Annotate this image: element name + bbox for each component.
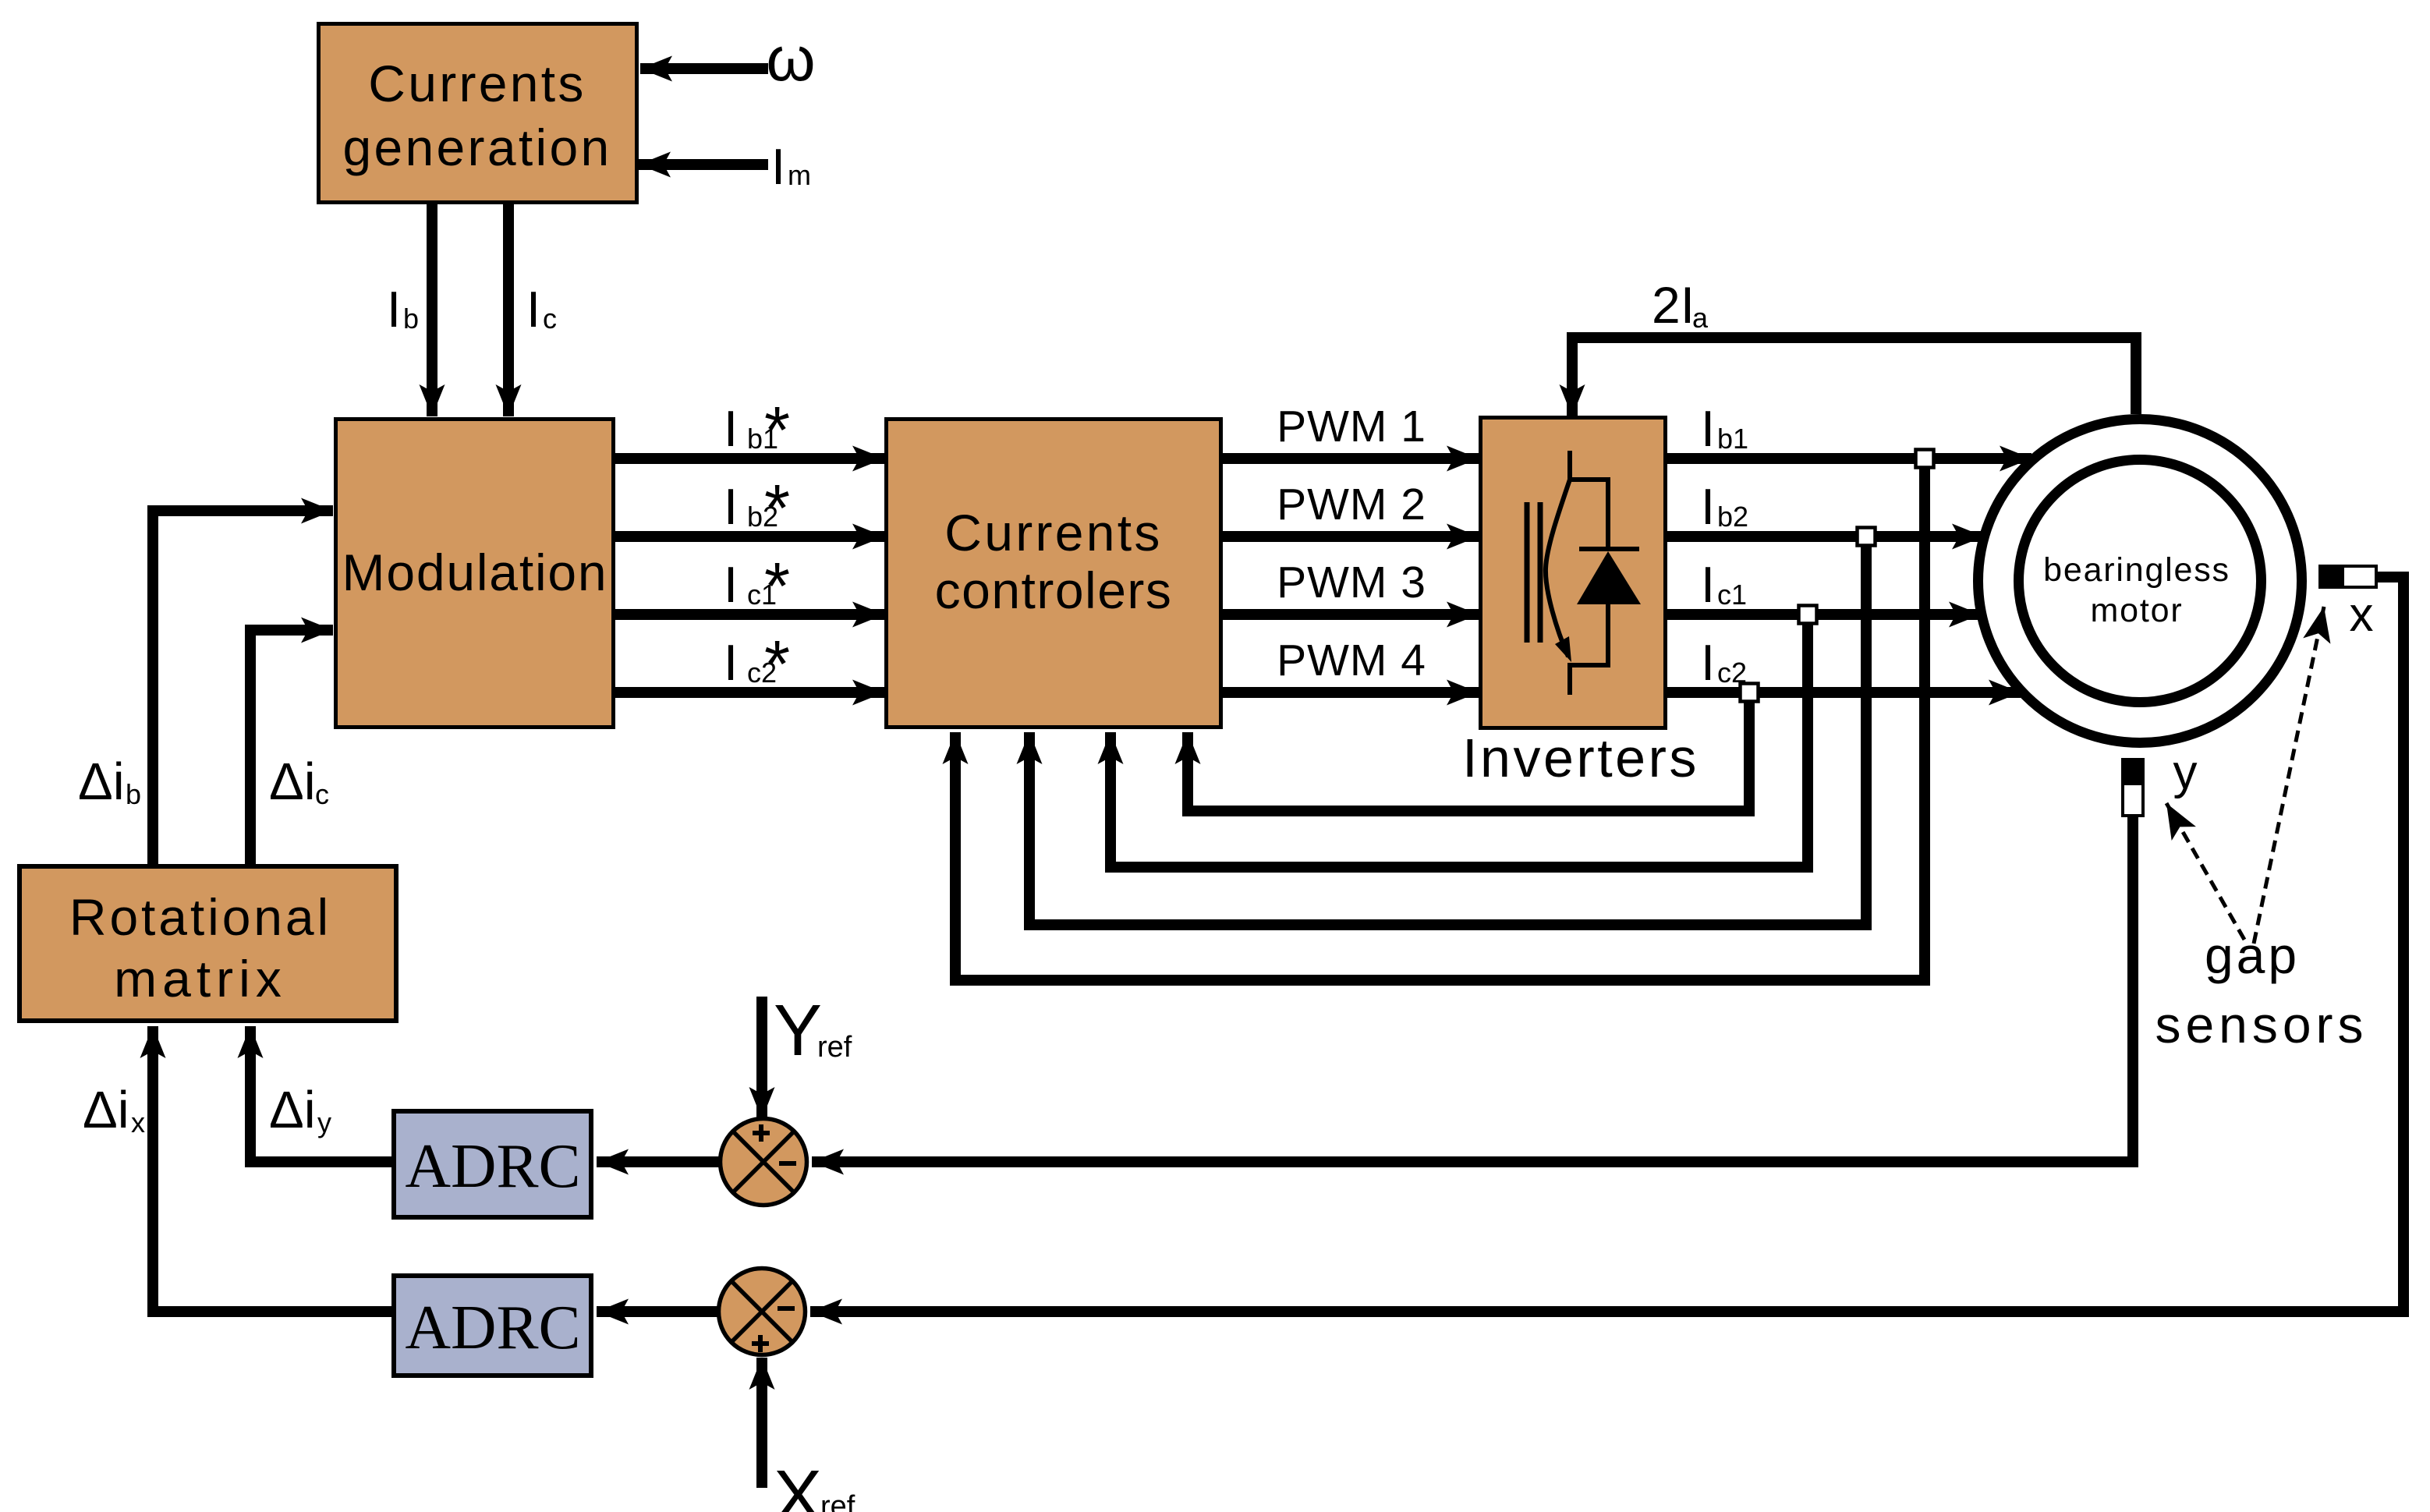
wire current feedback 2 (sensor Ib2 to controlers) (1029, 546, 1866, 925)
wire rotational matrix to modulation (delta ic) (250, 630, 333, 864)
svg-text:PWM 1: PWM 1 (1277, 402, 1426, 451)
svg-text:Δi: Δi (269, 1081, 316, 1139)
gap sensor y (black part) (2121, 758, 2145, 782)
wire Im input (639, 159, 768, 170)
wire rail2 Ib2* modulation to controlers (615, 531, 884, 542)
svg-text:2I: 2I (1652, 276, 1695, 334)
wire PWM1 controlers to inverters (1223, 453, 1479, 464)
svg-text:Modulation: Modulation (342, 544, 608, 601)
svg-text:c: c (543, 303, 557, 335)
wire PWM4 controlers to inverters (1223, 687, 1479, 698)
svg-text:PWM 4: PWM 4 (1277, 636, 1426, 685)
svg-text:Δi: Δi (83, 1081, 129, 1139)
svg-text:*: * (764, 550, 790, 624)
wire omega input (640, 63, 768, 74)
wire Xref input (756, 1358, 767, 1488)
svg-text:*: * (764, 472, 790, 546)
svg-text:x: x (131, 1107, 145, 1138)
svg-text:gap: gap (2205, 926, 2300, 984)
block ADRC 2 (394, 1276, 591, 1376)
block Inverters (1481, 418, 1666, 728)
svg-text:I: I (1701, 478, 1715, 535)
svg-text:I: I (724, 400, 738, 457)
svg-text:a: a (1692, 302, 1709, 334)
wire x sensor feedback to summing junction 2 (810, 577, 2403, 1312)
wire Ic1 inverters to motor (1667, 609, 1981, 620)
wire rotational matrix to modulation (delta ib) (153, 511, 333, 864)
svg-text:ref: ref (817, 1031, 852, 1064)
svg-text:ref: ref (820, 1490, 855, 1512)
current sensor square 4 (1741, 684, 1759, 702)
svg-text:bearingless: bearingless (2043, 551, 2230, 589)
svg-text:b: b (403, 303, 419, 335)
block Currents controlers (887, 420, 1221, 728)
svg-text:Δi: Δi (78, 752, 125, 811)
svg-text:Δi: Δi (269, 752, 316, 811)
svg-text:ω: ω (766, 24, 815, 94)
wire PWM2 controlers to inverters (1223, 531, 1479, 542)
wire rail1 Ib1* modulation to controlers (615, 453, 884, 464)
svg-text:Y: Y (774, 990, 822, 1071)
wire Ic2 inverters to motor (1667, 687, 2021, 698)
block ADRC 1 (394, 1111, 591, 1217)
svg-text:I: I (724, 556, 738, 613)
gap sensor y (white probe) (2123, 784, 2143, 816)
block Rotational matrix (19, 866, 396, 1021)
igbt emitter arrowhead (1555, 636, 1571, 662)
igbt diode triangle (1577, 551, 1641, 604)
svg-text:*: * (764, 394, 790, 468)
dashed arrow to y sensor (2166, 803, 2244, 940)
summing junction 1 (721, 1119, 807, 1206)
wire current feedback 1 (sensor Ib1 to controlers) (955, 468, 1925, 980)
svg-text:I: I (387, 281, 401, 338)
wire Yref input (756, 997, 767, 1119)
svg-text:c1: c1 (1717, 579, 1747, 611)
svg-text:Inverters: Inverters (1462, 728, 1699, 788)
block Modulation (336, 420, 614, 728)
wire rail3 Ic1* modulation to controlers (615, 609, 884, 620)
svg-text:matrix: matrix (114, 950, 287, 1007)
wire rail4 Ic2* modulation to controlers (615, 687, 884, 698)
svg-text:c: c (315, 778, 329, 810)
svg-text:PWM 2: PWM 2 (1277, 480, 1426, 529)
svg-text:*: * (764, 628, 790, 702)
wire ADRC 2 to rotational matrix (delta ix) (153, 1026, 391, 1312)
svg-text:ADRC: ADRC (405, 1131, 580, 1201)
svg-text:Currents: Currents (368, 55, 586, 112)
wire 2Ia feedback motor to inverters (1572, 338, 2136, 416)
wire current feedback 3 (sensor Ic1 to controlers) (1111, 624, 1808, 867)
dashed arrow to x sensor (2254, 607, 2324, 944)
motor bearingless (outer circle) (1978, 420, 2302, 743)
block Currents generation (319, 24, 637, 203)
summing junction 2 (719, 1269, 806, 1355)
wire y sensor feedback to summing junction 1 (812, 817, 2133, 1162)
svg-text:I: I (1701, 634, 1715, 691)
wire Ib1 inverters to motor (1667, 453, 2031, 464)
svg-text:ADRC: ADRC (405, 1292, 580, 1362)
svg-text:b1: b1 (1717, 423, 1748, 455)
svg-text:I: I (724, 478, 738, 535)
svg-text:b: b (126, 778, 141, 810)
svg-text:x: x (2350, 588, 2374, 642)
wire Ic (currents generation to modulation) (503, 204, 514, 416)
svg-text:sensors: sensors (2155, 996, 2368, 1053)
wire summing junction 2 to ADRC 2 (597, 1306, 719, 1317)
current sensor square 3 (1799, 606, 1817, 624)
svg-text:PWM 3: PWM 3 (1277, 558, 1426, 607)
current sensor square 2 (1858, 528, 1876, 546)
svg-text:Rotational: Rotational (69, 888, 331, 946)
svg-text:b2: b2 (1717, 501, 1748, 533)
svg-text:c2: c2 (1717, 657, 1747, 689)
wire Ib2 inverters to motor (1667, 531, 1984, 542)
svg-text:I: I (1701, 400, 1715, 457)
svg-text:m: m (788, 159, 811, 191)
wire Ib (currents generation to modulation) (427, 204, 437, 416)
svg-text:motor: motor (2091, 592, 2184, 629)
motor inner circle (2019, 460, 2262, 703)
current sensor square 1 (1916, 450, 1934, 468)
svg-text:Currents: Currents (944, 504, 1162, 561)
wire current feedback 4 (sensor Ic2 to controlers) (1188, 702, 1749, 811)
svg-text:X: X (774, 1455, 822, 1512)
gap sensor x (black part) (2318, 565, 2341, 589)
svg-text:I: I (771, 138, 785, 195)
svg-text:I: I (1701, 556, 1715, 613)
svg-text:I: I (724, 634, 738, 691)
wire ADRC 1 to rotational matrix (delta iy) (250, 1026, 391, 1162)
svg-text:generation: generation (343, 119, 612, 176)
igbt symbol inside inverters (1527, 451, 1639, 695)
wire PWM3 controlers to inverters (1223, 609, 1479, 620)
gap sensor x (white probe) (2343, 566, 2376, 587)
svg-text:controlers: controlers (935, 561, 1173, 619)
svg-text:y: y (317, 1107, 331, 1138)
wire summing junction 1 to ADRC 1 (597, 1156, 721, 1167)
svg-text:I: I (526, 281, 540, 338)
svg-text:y: y (2173, 745, 2198, 799)
